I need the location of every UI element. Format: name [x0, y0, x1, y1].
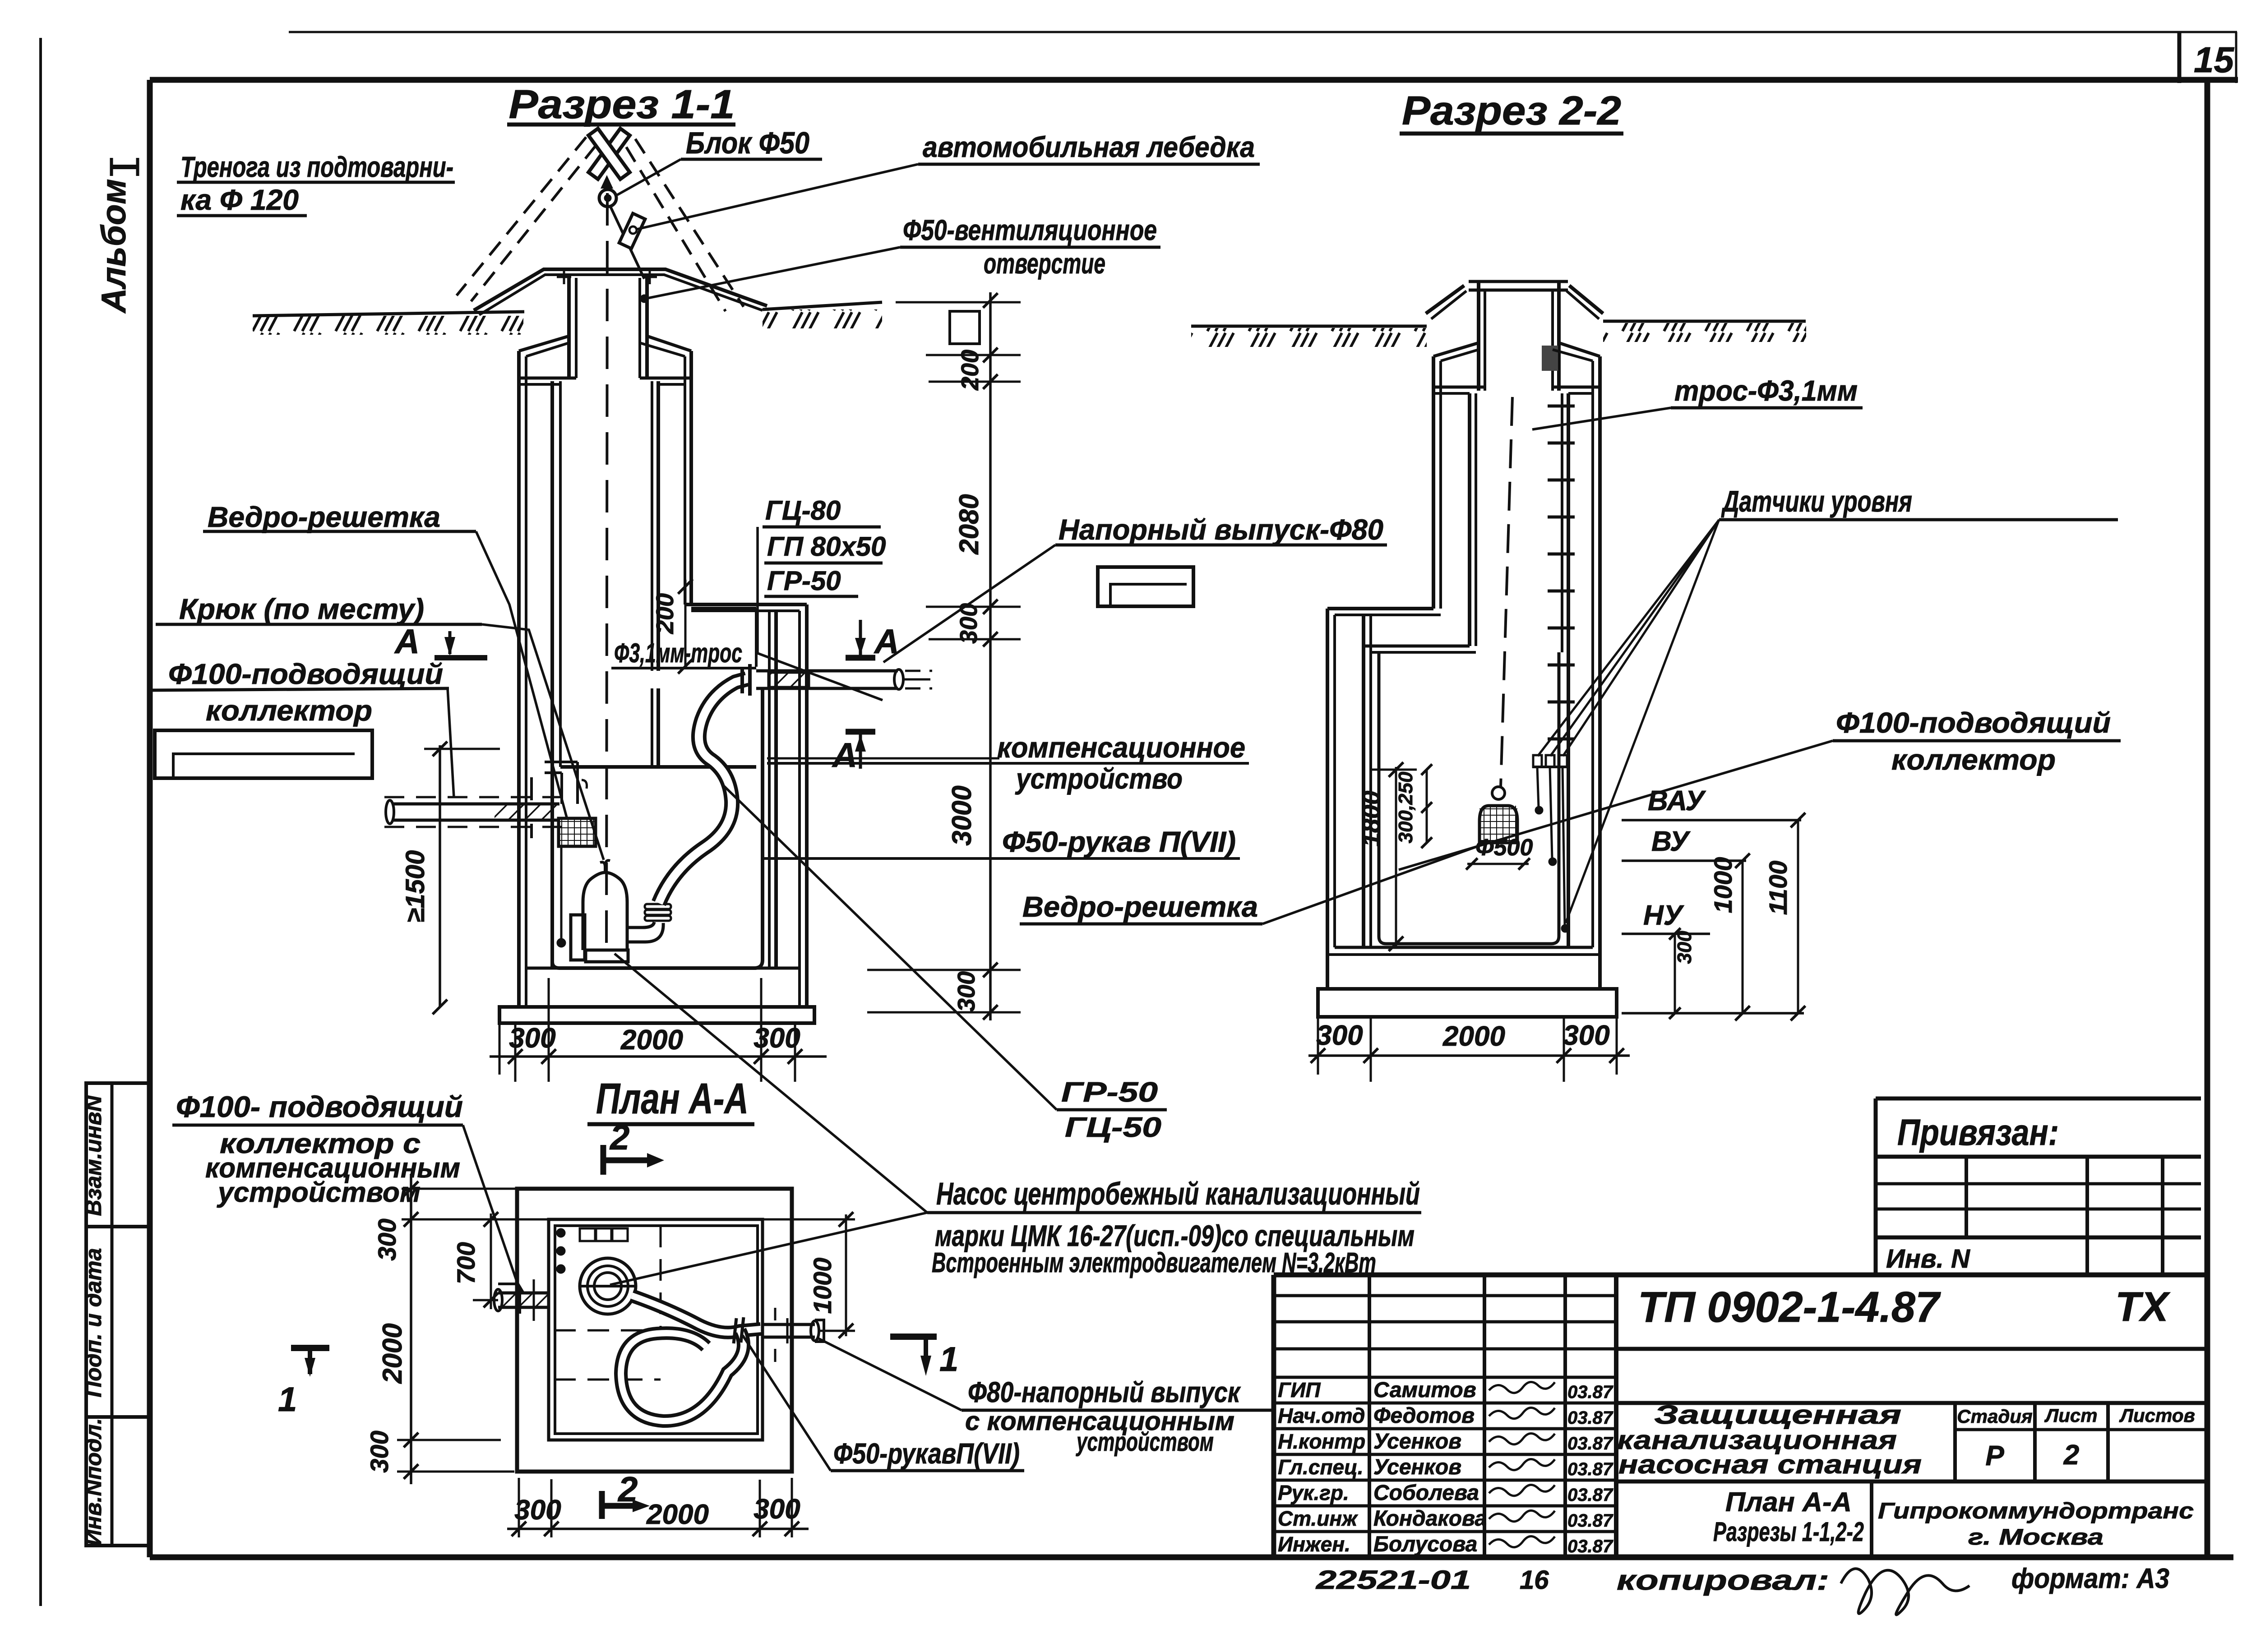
svg-text:300: 300 [1674, 931, 1696, 964]
svg-text:А: А [394, 623, 420, 661]
svg-text:Усенков: Усенков [1373, 1430, 1461, 1454]
svg-text:копировал:: копировал: [1617, 1565, 1829, 1596]
svg-text:Гл.спец.: Гл.спец. [1278, 1455, 1364, 1479]
svg-text:Ведро-решетка: Ведро-решетка [1022, 891, 1258, 923]
svg-text:2: 2 [2063, 1440, 2079, 1471]
svg-text:ТП 0902-1-4.87: ТП 0902-1-4.87 [1638, 1283, 1942, 1331]
svg-text:200: 200 [652, 593, 679, 634]
svg-text:компенсационное: компенсационное [997, 731, 1245, 764]
svg-text:Ф50-вентиляционное: Ф50-вентиляционное [903, 214, 1157, 246]
svg-text:Рук.гр.: Рук.гр. [1278, 1481, 1349, 1504]
svg-text:А: А [832, 736, 857, 775]
svg-text:Разрез 2-2: Разрез 2-2 [1402, 88, 1621, 134]
svg-text:200: 200 [957, 350, 984, 391]
svg-text:ГП 80х50: ГП 80х50 [767, 531, 886, 562]
svg-text:Разрезы 1-1,2-2: Разрезы 1-1,2-2 [1713, 1517, 1864, 1547]
svg-text:Напорный выпуск-Ф80: Напорный выпуск-Ф80 [1059, 513, 1383, 546]
svg-text:г. Москва: г. Москва [1968, 1524, 2103, 1550]
svg-text:300: 300 [373, 1218, 401, 1260]
svg-text:300: 300 [1563, 1020, 1609, 1051]
svg-text:Гипрокоммундортранс: Гипрокоммундортранс [1878, 1498, 2194, 1523]
svg-text:300: 300 [754, 1494, 800, 1525]
svg-text:Альбом: Альбом [95, 179, 133, 314]
svg-text:Кондакова: Кондакова [1373, 1507, 1487, 1531]
svg-text:ка Ф 120: ка Ф 120 [180, 184, 299, 216]
svg-text:Датчики уровня: Датчики уровня [1721, 485, 1912, 518]
svg-text:1000: 1000 [1709, 857, 1737, 914]
svg-text:насосная станция: насосная станция [1618, 1450, 1922, 1479]
svg-text:Тренога из подтоварни-: Тренога из подтоварни- [180, 151, 453, 183]
svg-text:устройство: устройство [1015, 762, 1183, 795]
svg-text:700: 700 [452, 1242, 480, 1284]
svg-text:формат: А3: формат: А3 [2011, 1563, 2169, 1594]
svg-text:2000: 2000 [646, 1499, 709, 1530]
svg-text:Ф100- подводящий: Ф100- подводящий [176, 1090, 463, 1123]
svg-text:Федотов: Федотов [1373, 1404, 1475, 1428]
svg-text:15: 15 [2194, 40, 2234, 80]
svg-text:Ф3,1мм-трос: Ф3,1мм-трос [614, 638, 742, 668]
svg-text:Ф100-подводящий: Ф100-подводящий [1836, 706, 2111, 739]
svg-text:устройством: устройством [217, 1177, 421, 1208]
svg-text:300: 300 [365, 1431, 393, 1472]
svg-text:ГЦ-50: ГЦ-50 [1065, 1112, 1161, 1143]
svg-text:Взам.инвN: Взам.инвN [81, 1095, 106, 1216]
svg-text:03.87: 03.87 [1567, 1511, 1613, 1531]
svg-text:2080: 2080 [954, 494, 984, 554]
svg-text:≥1500: ≥1500 [401, 850, 430, 923]
svg-text:2000: 2000 [620, 1024, 683, 1056]
svg-text:16: 16 [1520, 1565, 1549, 1595]
svg-text:03.87: 03.87 [1567, 1459, 1613, 1479]
svg-text:03.87: 03.87 [1567, 1408, 1613, 1428]
svg-text:Привязан:: Привязан: [1897, 1112, 2059, 1153]
svg-text:Блок Ф50: Блок Ф50 [686, 126, 809, 160]
svg-text:03.87: 03.87 [1567, 1485, 1613, 1505]
svg-text:300: 300 [1316, 1020, 1363, 1051]
svg-text:03.87: 03.87 [1567, 1382, 1613, 1402]
svg-text:Стадия: Стадия [1957, 1406, 2032, 1427]
svg-text:ГР-50: ГР-50 [767, 566, 841, 596]
svg-text:ВАУ: ВАУ [1648, 785, 1706, 817]
svg-text:Ф80-напорный выпуск: Ф80-напорный выпуск [968, 1376, 1241, 1408]
svg-text:План А-А: План А-А [596, 1075, 749, 1123]
svg-text:коллектор: коллектор [1891, 743, 2056, 776]
svg-text:Болусова: Болусова [1373, 1532, 1477, 1556]
svg-text:1100: 1100 [1764, 861, 1792, 915]
svg-text:2000: 2000 [377, 1323, 407, 1384]
svg-text:Насос центробежный канализацио: Насос центробежный канализационный [936, 1176, 1420, 1211]
svg-text:Ф100-подводящий: Ф100-подводящий [168, 658, 443, 690]
svg-text:1: 1 [278, 1380, 297, 1419]
svg-text:НУ: НУ [1643, 900, 1684, 931]
svg-text:устройством: устройством [1076, 1427, 1214, 1457]
svg-text:Подп. и дата: Подп. и дата [81, 1248, 106, 1397]
svg-text:300,250: 300,250 [1395, 771, 1417, 844]
svg-text:Ф50-рукавП(VII): Ф50-рукавП(VII) [833, 1437, 1020, 1470]
svg-text:Разрез 1-1: Разрез 1-1 [509, 82, 735, 127]
svg-text:1800: 1800 [1357, 791, 1385, 847]
svg-text:Инв.Nподл.: Инв.Nподл. [81, 1418, 106, 1546]
svg-text:Крюк (по месту): Крюк (по месту) [179, 593, 424, 625]
svg-text:300: 300 [953, 971, 980, 1012]
svg-text:3000: 3000 [947, 785, 977, 845]
svg-text:ТХ: ТХ [2115, 1284, 2170, 1330]
svg-text:Р: Р [1985, 1440, 2004, 1472]
svg-text:План А-А: План А-А [1725, 1487, 1852, 1517]
svg-text:03.87: 03.87 [1567, 1434, 1613, 1454]
svg-text:ГР-50: ГР-50 [1061, 1077, 1158, 1108]
svg-text:Ф50-рукав П(VII): Ф50-рукав П(VII) [1002, 826, 1236, 858]
svg-text:ГИП: ГИП [1278, 1378, 1321, 1402]
svg-text:Соболева: Соболева [1373, 1481, 1479, 1505]
svg-text:Нач.отд: Нач.отд [1278, 1404, 1365, 1427]
svg-text:Инв. N: Инв. N [1886, 1244, 1970, 1274]
svg-text:300: 300 [514, 1495, 561, 1526]
svg-text:трос-Ф3,1мм: трос-Ф3,1мм [1674, 374, 1858, 407]
svg-text:03.87: 03.87 [1567, 1537, 1613, 1556]
svg-text:отверстие: отверстие [984, 247, 1105, 280]
svg-text:ВУ: ВУ [1651, 826, 1691, 857]
svg-text:ГЦ-80: ГЦ-80 [765, 495, 841, 526]
svg-text:Листов: Листов [2119, 1405, 2195, 1426]
svg-text:1000: 1000 [808, 1258, 837, 1314]
svg-text:2000: 2000 [1442, 1021, 1505, 1052]
svg-text:300: 300 [754, 1023, 800, 1054]
svg-text:автомобильная лебедка: автомобильная лебедка [923, 131, 1255, 163]
svg-text:22521-01: 22521-01 [1316, 1565, 1471, 1595]
svg-text:Лист: Лист [2044, 1405, 2097, 1426]
svg-text:Инжен.: Инжен. [1278, 1532, 1350, 1556]
svg-text:Усенков: Усенков [1373, 1455, 1461, 1479]
svg-text:2: 2 [609, 1117, 629, 1157]
svg-text:коллектор: коллектор [206, 694, 372, 727]
svg-text:1: 1 [939, 1340, 958, 1379]
svg-text:300: 300 [509, 1023, 555, 1054]
svg-text:Н.контр: Н.контр [1278, 1430, 1365, 1453]
svg-text:Самитов: Самитов [1373, 1378, 1476, 1402]
svg-text:Ст.инж: Ст.инж [1278, 1507, 1358, 1530]
svg-text:Ведро-решетка: Ведро-решетка [208, 501, 440, 533]
